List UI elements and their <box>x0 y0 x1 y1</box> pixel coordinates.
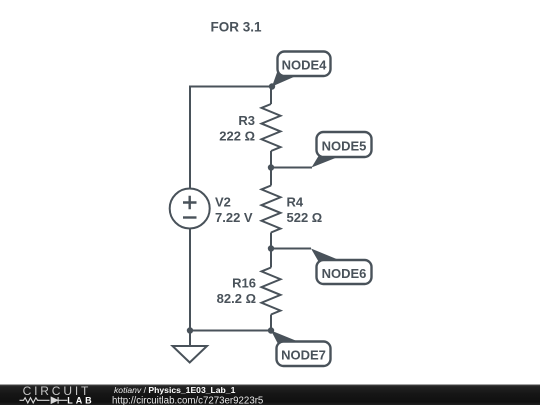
resistor R3 <box>219 104 280 151</box>
svg-text:R16: R16 <box>232 275 256 290</box>
node NODE4 <box>272 52 331 87</box>
junction dot NODE6 <box>268 245 274 251</box>
svg-text:R3: R3 <box>238 113 255 128</box>
resistor R16 <box>217 268 281 315</box>
wire between R4 and R16 <box>270 233 272 268</box>
junction dot NODE4 <box>269 83 275 89</box>
wire left vertical lower <box>189 229 191 331</box>
junction dot ground <box>187 327 193 333</box>
node NODE6 <box>311 249 372 285</box>
footer logo CIRCUIT <box>23 384 92 398</box>
node NODE7 <box>271 331 331 367</box>
voltage source V2 <box>170 189 253 229</box>
wire bottom horizontal <box>190 330 271 332</box>
node NODE5 <box>312 132 372 168</box>
svg-text:NODE6: NODE6 <box>322 266 367 281</box>
svg-text:NODE5: NODE5 <box>322 139 367 154</box>
footer logo resistor-diode symbol <box>20 398 68 403</box>
wire stub to NODE5 <box>271 167 312 169</box>
svg-text:222 Ω: 222 Ω <box>219 129 255 144</box>
svg-text:522 Ω: 522 Ω <box>287 210 323 225</box>
wire between R3 and R4 <box>270 151 272 186</box>
ground <box>173 331 208 363</box>
svg-text:http://circuitlab.com/c7273er9: http://circuitlab.com/c7273er9223r5 <box>112 396 263 405</box>
svg-text:LAB: LAB <box>67 395 94 405</box>
junction dot NODE7 <box>268 327 274 333</box>
wire left vertical upper <box>189 86 191 189</box>
wire R16 bottom lead <box>270 315 272 331</box>
svg-text:kotianv / Physics_1E03_Lab_1: kotianv / Physics_1E03_Lab_1 <box>114 385 236 395</box>
footer logo diode <box>51 397 58 404</box>
svg-text:V2: V2 <box>215 194 231 209</box>
svg-text:NODE7: NODE7 <box>281 348 326 363</box>
footer bar <box>0 385 540 405</box>
wire stub to NODE6 <box>271 248 311 250</box>
junction dot NODE5 <box>268 164 274 170</box>
svg-text:R4: R4 <box>287 194 304 209</box>
svg-text:82.2 Ω: 82.2 Ω <box>217 291 256 306</box>
svg-text:FOR 3.1: FOR 3.1 <box>211 20 263 35</box>
wire top horizontal <box>190 86 271 88</box>
svg-text:NODE4: NODE4 <box>282 58 328 73</box>
resistor R4 <box>262 186 323 233</box>
svg-text:7.22 V: 7.22 V <box>215 210 253 225</box>
wire branch R3 top lead <box>270 87 272 105</box>
